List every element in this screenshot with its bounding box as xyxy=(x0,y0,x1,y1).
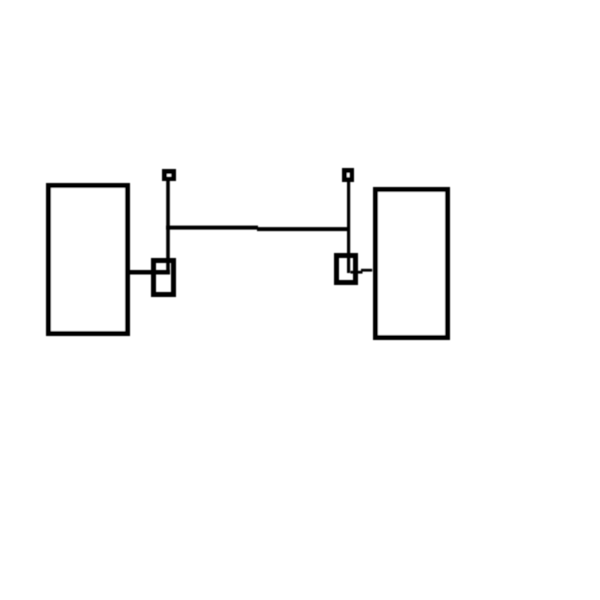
left pivot block xyxy=(162,169,176,181)
right pivot block xyxy=(342,168,354,182)
tie rod (axle) wire xyxy=(166,226,350,232)
left wheel xyxy=(49,186,128,334)
left knuckle box xyxy=(154,261,174,295)
right wheel xyxy=(376,190,448,338)
left wheel connector wire xyxy=(128,270,170,275)
left vertical link wire xyxy=(166,181,170,275)
right knuckle box xyxy=(337,256,356,283)
right vertical link wire xyxy=(347,182,350,273)
right wheel connector wire xyxy=(351,269,373,274)
